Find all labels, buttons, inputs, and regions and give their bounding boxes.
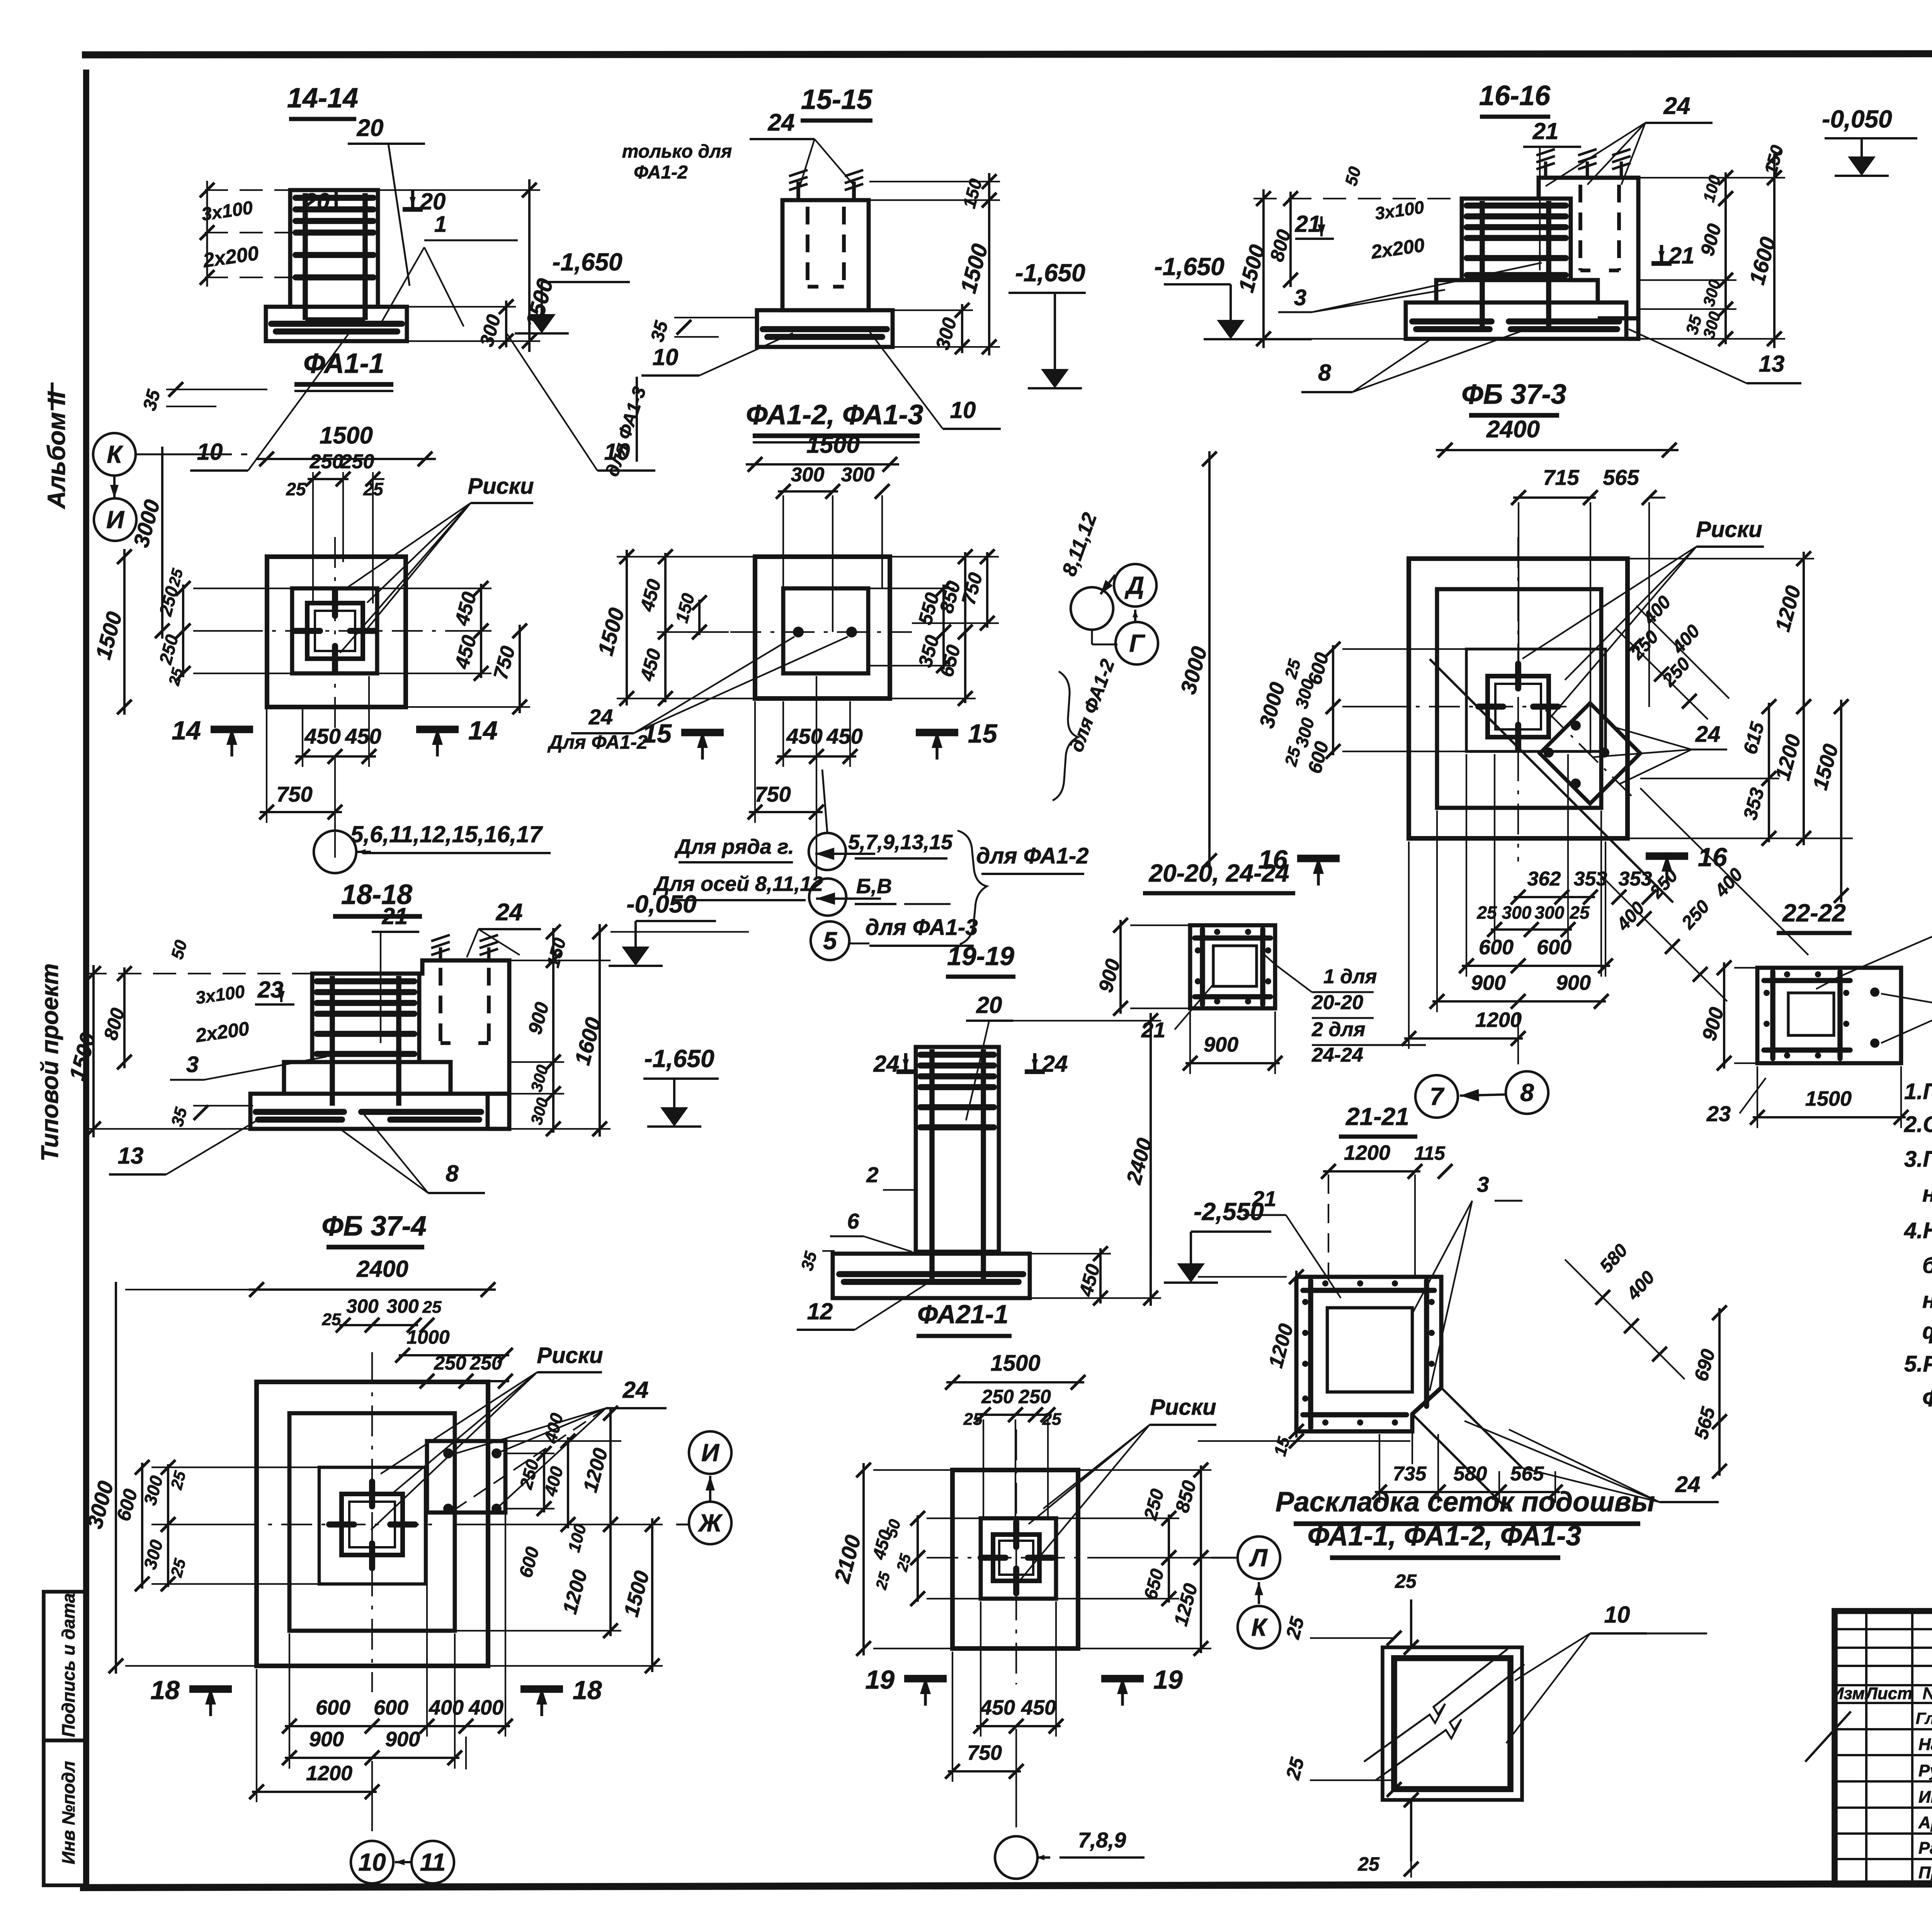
svg-text:24-24: 24-24 <box>1311 1044 1363 1066</box>
section 16-16 right column <box>1539 178 1638 339</box>
svg-text:3000: 3000 <box>1255 680 1289 731</box>
sheet frame top border <box>82 53 1932 55</box>
section 16-16 anchor bolt hatches on top <box>1544 161 1548 178</box>
svg-text:Инв №подл: Инв №подл <box>58 1761 78 1864</box>
svg-text:650: 650 <box>1140 1567 1168 1602</box>
plan FB37-4 axis circles I Zh <box>689 1431 731 1474</box>
plan FA1-1 outer square <box>267 557 406 707</box>
svg-text:24: 24 <box>873 1051 900 1077</box>
section 16-16 footing mesh <box>1412 318 1492 325</box>
svg-text:И: И <box>701 1439 720 1467</box>
svg-text:25: 25 <box>1395 1570 1417 1592</box>
section 16-16 footing <box>1406 303 1626 339</box>
svg-text:1200: 1200 <box>306 1762 352 1785</box>
plan FA1-1 axis circle I <box>113 476 116 498</box>
plan FA1-1 center lines <box>232 630 448 632</box>
svg-text:300: 300 <box>346 1295 379 1317</box>
svg-text:20: 20 <box>420 189 446 214</box>
svg-text:3000: 3000 <box>1176 644 1212 697</box>
svg-text:24: 24 <box>1663 93 1690 119</box>
section 19-19 footing mesh <box>839 1271 1023 1277</box>
section 16-16 vertical rebars <box>1480 201 1485 328</box>
svg-text:И: И <box>106 506 125 534</box>
svg-text:Альбом II: Альбом II <box>43 391 70 510</box>
svg-text:25: 25 <box>1282 1755 1308 1782</box>
plan 20-20 left dim 900 <box>1119 920 1122 1014</box>
svg-text:1250: 1250 <box>1170 1581 1202 1628</box>
svg-text:3000: 3000 <box>129 497 165 550</box>
svg-text:Б,В: Б,В <box>856 875 892 898</box>
svg-text:450: 450 <box>868 1528 895 1562</box>
plan FA1-2 bolt dots <box>793 627 804 637</box>
svg-text:8: 8 <box>1318 360 1331 386</box>
svg-text:3: 3 <box>186 1052 199 1077</box>
plan FA21-1 section marks 19 <box>904 1675 947 1682</box>
svg-text:600: 600 <box>316 1696 350 1719</box>
svg-text:250: 250 <box>155 584 182 619</box>
plan FA1-2 section marks 15 <box>681 729 724 736</box>
svg-text:Инж. пр.: Инж. пр. <box>1918 1788 1932 1807</box>
svg-text:1500: 1500 <box>619 1569 654 1620</box>
svg-text:1500: 1500 <box>91 609 127 662</box>
svg-text:1200: 1200 <box>559 1567 592 1616</box>
svg-text:565: 565 <box>1603 465 1639 489</box>
left margin box Inv N podl <box>44 1740 86 1885</box>
svg-text:900: 900 <box>309 1728 344 1751</box>
plan FA1-1 column cup <box>307 603 363 659</box>
svg-text:50: 50 <box>168 938 191 961</box>
svg-text:21: 21 <box>1295 211 1321 237</box>
svg-text:25: 25 <box>963 1410 983 1429</box>
svg-text:4.На чертежах фундаментов н: 4.На чертежах фундаментов набетонки под … <box>1904 1218 1932 1243</box>
svg-text:для ФА1-2: для ФА1-2 <box>976 843 1089 868</box>
plan FA21-1 bottom axis circle 789 <box>995 1836 1037 1879</box>
svg-text:1500: 1500 <box>320 422 373 449</box>
svg-text:8: 8 <box>1520 1079 1534 1106</box>
section 14-14 column rebar bars <box>296 195 373 201</box>
svg-text:353: 353 <box>1739 785 1769 822</box>
svg-text:3x100: 3x100 <box>194 981 246 1008</box>
svg-text:300: 300 <box>527 1096 552 1127</box>
svg-text:1: 1 <box>434 212 447 237</box>
svg-text:35: 35 <box>647 318 672 344</box>
svg-text:24: 24 <box>1042 1051 1068 1077</box>
svg-text:300: 300 <box>139 1538 167 1572</box>
svg-text:25: 25 <box>286 479 306 499</box>
plan FB37-4 center lines <box>228 1524 433 1525</box>
svg-text:24: 24 <box>588 705 613 729</box>
svg-text:24: 24 <box>1675 1472 1701 1497</box>
svg-text:1500: 1500 <box>65 1030 100 1083</box>
svg-text:300: 300 <box>791 464 825 486</box>
svg-text:8,11,12: 8,11,12 <box>1058 510 1102 579</box>
svg-text:750: 750 <box>957 570 987 607</box>
svg-text:19: 19 <box>865 1665 895 1694</box>
svg-text:Для ФА1-2: Для ФА1-2 <box>547 731 648 753</box>
plan 22-22 rect with cage <box>1757 968 1901 1063</box>
svg-text:3x100: 3x100 <box>200 197 254 225</box>
svg-text:для ФА1-3: для ФА1-3 <box>602 384 650 479</box>
svg-text:Подпись и дата: Подпись и дата <box>58 1593 78 1737</box>
svg-text:10: 10 <box>358 1848 386 1876</box>
svg-text:Риски: Риски <box>468 474 534 499</box>
svg-text:20: 20 <box>304 189 330 214</box>
svg-text:2x200: 2x200 <box>1369 234 1426 263</box>
plan FB37-3 section marks 16 <box>1297 855 1340 862</box>
plan FA1-1 axis circle K <box>93 433 136 476</box>
svg-text:1 для: 1 для <box>1323 965 1377 988</box>
section 18-18 right column <box>419 960 509 1129</box>
svg-text:ФАТ 7-2 и ФА21-1 см. КЖ-13: ФАТ 7-2 и ФА21-1 см. КЖ-13 , КЖ-14. <box>1922 1386 1932 1411</box>
svg-text:450: 450 <box>345 724 381 748</box>
svg-text:715: 715 <box>1543 465 1579 489</box>
svg-text:150: 150 <box>543 936 570 970</box>
plan FB37-4 column cup <box>342 1494 403 1555</box>
plan FB37-3 riski ticks <box>1515 664 1521 688</box>
svg-text:3x100: 3x100 <box>1374 197 1425 223</box>
plan FA1-2 axis D circle <box>1114 564 1156 607</box>
svg-text:ФА21-1: ФА21-1 <box>917 1300 1009 1329</box>
svg-text:Арх. пр.: Арх. пр. <box>1918 1813 1932 1832</box>
svg-text:10: 10 <box>1604 1602 1630 1628</box>
section 15-15 footing <box>757 310 893 347</box>
svg-text:25: 25 <box>1569 902 1590 923</box>
plan FA21-1 middle square <box>981 1518 1056 1599</box>
svg-text:21: 21 <box>382 903 408 929</box>
svg-text:25: 25 <box>1042 1410 1061 1429</box>
svg-text:1200: 1200 <box>1344 1141 1390 1164</box>
section 14-14 column FA1-1 <box>290 190 378 307</box>
svg-text:7,8,9: 7,8,9 <box>1078 1828 1126 1852</box>
section 14-14 left extension lines <box>205 189 289 191</box>
svg-text:3.После распалубки фундамент: 3.После распалубки фундаментов риски раз… <box>1904 1147 1932 1172</box>
svg-text:10: 10 <box>653 344 679 370</box>
svg-text:фундаментами.: фундаментами. <box>1922 1319 1932 1344</box>
svg-text:25: 25 <box>322 1310 341 1329</box>
svg-text:750: 750 <box>489 644 519 682</box>
svg-text:565: 565 <box>1510 1463 1544 1485</box>
svg-text:400: 400 <box>540 1411 567 1445</box>
svg-text:Раскладка сеток подошвы: Раскладка сеток подошвы <box>1276 1487 1655 1518</box>
svg-text:14-14: 14-14 <box>287 83 358 114</box>
svg-text:5: 5 <box>823 927 837 955</box>
svg-text:-0,050: -0,050 <box>1822 105 1892 133</box>
section 19-19 footing <box>833 1254 1030 1298</box>
svg-text:580: 580 <box>1454 1463 1487 1485</box>
svg-text:20-20: 20-20 <box>1311 991 1363 1014</box>
plan 22-22 cage dots <box>1764 990 1770 996</box>
svg-text:1000: 1000 <box>406 1326 449 1348</box>
plan FB37-3 diamond <box>1540 703 1640 804</box>
section 19-19 right dims <box>1150 1167 1152 1254</box>
svg-text:900: 900 <box>1471 971 1506 994</box>
svg-text:21: 21 <box>1532 118 1559 144</box>
svg-text:1200: 1200 <box>579 1446 612 1495</box>
svg-text:6: 6 <box>847 1209 859 1233</box>
svg-text:21: 21 <box>1141 1018 1165 1042</box>
svg-text:25: 25 <box>1281 657 1304 681</box>
mesh layout square inner <box>1394 1658 1510 1789</box>
plan FA1-1 extension verticals <box>312 472 314 603</box>
plan FA1-1 bottom axis circle <box>314 831 356 873</box>
left margin box Podpis i data <box>44 1592 86 1740</box>
plan FA1-1 section marks 14 <box>211 726 253 733</box>
plan FB37-3 second square <box>1437 589 1601 808</box>
svg-text:25: 25 <box>1282 1614 1308 1641</box>
svg-text:24: 24 <box>768 109 795 136</box>
svg-text:300: 300 <box>1535 902 1565 923</box>
svg-text:Д: Д <box>1124 571 1144 599</box>
svg-text:300: 300 <box>841 464 875 486</box>
svg-text:15-15: 15-15 <box>801 84 872 115</box>
axis legend brace FA1-2 <box>957 831 987 944</box>
svg-text:400: 400 <box>429 1696 464 1719</box>
svg-text:300: 300 <box>527 1063 552 1094</box>
plan FA21-1 column cup <box>993 1535 1039 1581</box>
plan FB37-3 outer square <box>1409 559 1628 838</box>
svg-text:600: 600 <box>515 1545 543 1580</box>
svg-text:35: 35 <box>139 387 165 413</box>
svg-text:1200: 1200 <box>1265 1321 1298 1370</box>
plan FB37-4 outer square <box>257 1382 488 1666</box>
section 15-15 anchor bolts tops <box>796 182 800 200</box>
svg-text:14: 14 <box>172 716 201 745</box>
svg-text:300: 300 <box>476 312 505 349</box>
section 15-15 footing mesh <box>763 326 887 332</box>
plan FB37-3 center lines <box>1376 706 1569 707</box>
svg-text:250: 250 <box>469 1352 502 1374</box>
svg-text:10: 10 <box>950 397 976 423</box>
svg-text:набетонки (см. КЖ-8 ÷ КЖ-12): набетонки (см. КЖ-8 ÷ КЖ-12) бетонироват… <box>1922 1288 1932 1313</box>
svg-text:13: 13 <box>1759 351 1785 377</box>
svg-text:850: 850 <box>1171 1478 1201 1515</box>
svg-text:450: 450 <box>451 633 481 671</box>
svg-text:2400: 2400 <box>356 1256 408 1282</box>
plan FB37-4 axis circles 10 11 <box>351 1841 393 1883</box>
plan 21-21 cage dots <box>1302 1299 1308 1305</box>
svg-text:Нач. отд.: Нач. отд. <box>1918 1735 1932 1754</box>
section 16-16 right dims <box>1725 172 1727 204</box>
svg-text:15: 15 <box>642 719 672 748</box>
svg-text:300: 300 <box>1699 277 1724 308</box>
svg-text:1200: 1200 <box>1771 583 1805 634</box>
plan FA1-2 inner rect <box>783 588 868 673</box>
svg-text:ФБ 37-3: ФБ 37-3 <box>1461 379 1566 410</box>
plan FB37-4 riski ticks <box>369 1482 375 1506</box>
mesh layout break lines <box>1364 1649 1508 1762</box>
svg-text:1500: 1500 <box>806 432 860 458</box>
svg-text:25: 25 <box>1281 745 1304 768</box>
svg-text:900: 900 <box>524 1000 553 1037</box>
svg-text:25: 25 <box>422 1298 442 1317</box>
svg-text:24: 24 <box>1695 722 1721 747</box>
svg-text:-1,650: -1,650 <box>1154 253 1224 280</box>
svg-text:Риски: Риски <box>537 1343 603 1368</box>
section 18-18 left dims <box>92 965 95 1137</box>
svg-text:21: 21 <box>1668 243 1695 269</box>
svg-text:450: 450 <box>451 590 481 628</box>
plan FB37-4 offset square <box>427 1441 505 1513</box>
svg-text:21-21: 21-21 <box>1345 1103 1409 1130</box>
svg-text:400: 400 <box>1639 592 1675 629</box>
svg-text:Рук. бриг.: Рук. бриг. <box>1918 1761 1932 1780</box>
svg-text:1500: 1500 <box>956 241 993 296</box>
svg-text:21: 21 <box>1252 1186 1276 1211</box>
svg-text:-1,650: -1,650 <box>552 248 622 276</box>
svg-text:5.Раскладку сеток подошвы ф: 5.Раскладку сеток подошвы фундаментов ФБ… <box>1904 1351 1932 1377</box>
section 18-18 vertical rebars <box>330 976 335 1106</box>
section 14-14 right dim 300 <box>505 301 507 347</box>
section 18-18 middle step <box>284 1062 312 1094</box>
section 15-15 right dim 300 <box>961 304 963 353</box>
svg-text:250: 250 <box>310 450 344 473</box>
svg-text:580: 580 <box>1596 1240 1632 1277</box>
plan FA1-2 axis G circle <box>1116 622 1158 664</box>
svg-text:Для ряда г.: Для ряда г. <box>674 835 794 858</box>
section 16-16 left column with rebars <box>1462 199 1571 280</box>
svg-text:115: 115 <box>1414 1142 1446 1164</box>
svg-text:35: 35 <box>798 1249 821 1273</box>
mesh layout square outer <box>1383 1647 1522 1800</box>
svg-text:1200: 1200 <box>1771 732 1805 783</box>
svg-text:600: 600 <box>1537 936 1571 959</box>
section 19-19 column <box>916 1047 999 1252</box>
svg-text:362: 362 <box>1527 868 1561 890</box>
svg-text:Изм.: Изм. <box>1832 1684 1869 1703</box>
svg-text:50: 50 <box>1342 165 1365 188</box>
svg-text:250: 250 <box>981 1386 1014 1407</box>
plan FB37-4 offset square dots <box>443 1448 453 1458</box>
svg-text:К: К <box>1251 1613 1268 1641</box>
axis legend row 5 FA1-3 <box>811 921 849 960</box>
svg-text:1500: 1500 <box>1808 742 1843 793</box>
svg-text:23: 23 <box>257 977 284 1003</box>
svg-text:К: К <box>107 440 123 468</box>
svg-text:-0,050: -0,050 <box>626 890 696 918</box>
svg-text:20-20, 24-24: 20-20, 24-24 <box>1149 859 1289 887</box>
section 15-15 right dim 1500 <box>988 192 990 355</box>
svg-text:19: 19 <box>1153 1665 1183 1694</box>
svg-text:Лист: Лист <box>1865 1684 1913 1703</box>
svg-text:ФА1-2: ФА1-2 <box>634 162 688 183</box>
plan FA21-1 center lines <box>927 1557 1113 1558</box>
svg-text:-1,650: -1,650 <box>644 1045 714 1072</box>
svg-text:750: 750 <box>967 1741 1002 1764</box>
title block left table verticals <box>1865 1611 1867 1885</box>
plan 21-21 step diagonals <box>1412 1414 1507 1509</box>
plan FB37-3 diamond inner dots <box>1571 721 1581 731</box>
svg-text:450: 450 <box>1021 1696 1056 1719</box>
svg-text:565: 565 <box>1690 1404 1719 1441</box>
plan FB37-3 extension verticals <box>1518 502 1519 672</box>
section 15-15 right dim 150 <box>988 173 990 209</box>
svg-text:600: 600 <box>374 1696 408 1719</box>
plan FB37-3 inner square <box>1466 649 1605 751</box>
title block left table rows <box>1835 1628 1932 1630</box>
svg-text:Типовой проект: Типовой проект <box>37 964 63 1162</box>
svg-text:250: 250 <box>340 450 374 473</box>
plan 22-22 bolt dots <box>1870 987 1879 997</box>
svg-text:300: 300 <box>386 1295 419 1317</box>
plan FA21-1 extension verticals <box>983 1419 984 1520</box>
svg-text:615: 615 <box>1739 719 1769 756</box>
plan FA1-1 middle square <box>292 588 377 673</box>
svg-text:750: 750 <box>755 782 791 806</box>
plan FA1-1 riski ticks <box>332 591 338 616</box>
svg-text:нанести несмываемой краской.: нанести несмываемой краской. <box>1922 1181 1932 1207</box>
svg-text:13: 13 <box>118 1143 144 1169</box>
svg-text:№ докум.: № докум. <box>1923 1684 1932 1703</box>
svg-text:400: 400 <box>1668 621 1704 658</box>
svg-text:900: 900 <box>385 1728 420 1751</box>
plan FB37-4 second square <box>289 1413 455 1631</box>
svg-text:900: 900 <box>1204 1033 1238 1056</box>
svg-text:1500: 1500 <box>990 1351 1040 1376</box>
section 15-15 anchor bolts dashed <box>806 207 810 287</box>
svg-text:25: 25 <box>872 1570 893 1592</box>
plan FA21-1 riski ticks <box>1013 1522 1019 1547</box>
svg-text:25: 25 <box>167 1557 189 1579</box>
svg-text:-1,650: -1,650 <box>1015 259 1085 287</box>
svg-text:24: 24 <box>622 1377 649 1403</box>
svg-text:Гл.инж.пр.: Гл.инж.пр. <box>1916 1709 1932 1727</box>
svg-text:2.Спецификацию и выборку ст: 2.Спецификацию и выборку стали см. КЖ-16 <box>1904 1112 1932 1137</box>
svg-text:1500: 1500 <box>593 605 629 658</box>
section 16-16 middle step <box>1436 280 1462 303</box>
svg-text:12: 12 <box>807 1298 833 1324</box>
svg-text:Разраб.: Разраб. <box>1918 1839 1932 1858</box>
section 18-18 footing <box>250 1094 488 1129</box>
svg-text:18: 18 <box>150 1676 180 1705</box>
plan FB37-3 axis circles 7 8 <box>1415 1075 1458 1118</box>
svg-text:2x200: 2x200 <box>194 1018 251 1047</box>
plan FA21-1 outer square <box>952 1470 1078 1648</box>
title block diagonal mark <box>1805 1711 1851 1762</box>
svg-text:10: 10 <box>197 439 223 465</box>
svg-text:750: 750 <box>276 782 312 806</box>
svg-text:16: 16 <box>1698 843 1728 872</box>
svg-text:1.План фундаментс. см. КЖ-: 1.План фундаментс. см. КЖ-6. <box>1904 1079 1932 1104</box>
svg-text:балки и рамы ворот условно: балки и рамы ворот условно не показаны. … <box>1922 1253 1932 1278</box>
section 18-18 left column with rebars <box>312 974 419 1062</box>
svg-text:2: 2 <box>866 1162 878 1187</box>
svg-text:Провер.: Провер. <box>1918 1863 1932 1882</box>
svg-text:ФА1-2, ФА1-3: ФА1-2, ФА1-3 <box>746 399 923 430</box>
svg-text:для ФА1-3: для ФА1-3 <box>866 915 978 940</box>
svg-text:2400: 2400 <box>1486 416 1540 443</box>
svg-text:300: 300 <box>139 1473 167 1507</box>
section 14-14 right dim 1500 <box>528 179 531 352</box>
svg-text:3: 3 <box>1477 1172 1489 1196</box>
svg-text:5,6,11,12,15,16,17: 5,6,11,12,15,16,17 <box>350 821 543 847</box>
section 16-16 left dims <box>1262 189 1265 348</box>
svg-text:2100: 2100 <box>829 1533 865 1586</box>
svg-text:450: 450 <box>980 1696 1015 1719</box>
svg-text:Риски: Риски <box>1696 517 1762 542</box>
svg-text:250: 250 <box>1140 1487 1168 1522</box>
svg-text:690: 690 <box>1690 1347 1719 1383</box>
plan FB37-4 third square <box>319 1467 425 1584</box>
svg-text:18: 18 <box>573 1676 602 1705</box>
svg-text:250: 250 <box>515 1457 543 1492</box>
svg-text:Л: Л <box>1249 1544 1268 1572</box>
svg-text:20: 20 <box>976 992 1002 1018</box>
svg-text:20: 20 <box>357 115 384 141</box>
svg-text:35: 35 <box>168 1105 191 1128</box>
plan 21-21 square with cage <box>1296 1277 1441 1431</box>
svg-text:только для: только для <box>622 141 732 162</box>
svg-text:16-16: 16-16 <box>1479 80 1551 111</box>
